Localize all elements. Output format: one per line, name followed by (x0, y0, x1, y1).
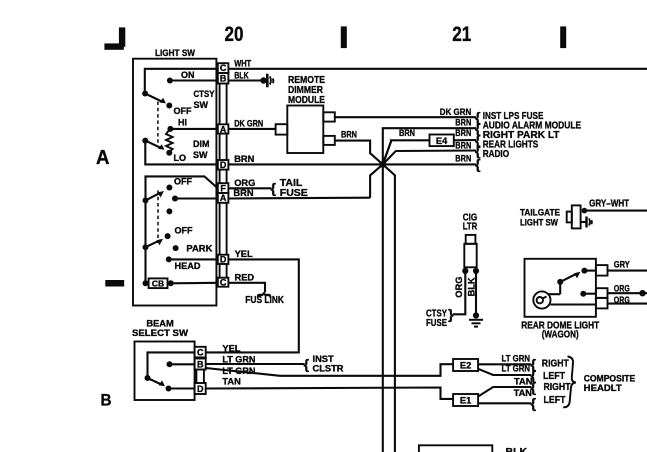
svg-text:LIGHT SW: LIGHT SW (155, 48, 195, 58)
svg-text:RED: RED (235, 273, 255, 283)
svg-text:LT GRN: LT GRN (222, 355, 255, 365)
svg-text:GRY–WHT: GRY–WHT (589, 198, 629, 210)
svg-text:OFF: OFF (175, 226, 193, 236)
svg-text:21: 21 (452, 23, 471, 46)
svg-text:RIGHT: RIGHT (542, 358, 569, 370)
svg-text:GRY: GRY (614, 260, 631, 270)
svg-text:20: 20 (225, 23, 244, 46)
svg-text:BRN: BRN (455, 154, 471, 164)
svg-text:BRN: BRN (455, 117, 471, 127)
svg-text:ON: ON (181, 70, 195, 80)
svg-text:CB: CB (152, 279, 164, 289)
svg-text:E4: E4 (436, 136, 448, 146)
svg-text:HEAD: HEAD (175, 261, 201, 271)
svg-text:OFF: OFF (174, 177, 192, 187)
svg-text:DK GRN: DK GRN (440, 107, 472, 117)
svg-text:BRN: BRN (455, 128, 471, 138)
svg-text:C: C (220, 277, 227, 287)
svg-text:SW: SW (193, 150, 208, 160)
svg-text:YEL: YEL (235, 249, 253, 259)
svg-text:BLK: BLK (234, 71, 249, 81)
svg-text:LT GRN: LT GRN (502, 364, 531, 374)
svg-text:C: C (197, 347, 204, 357)
svg-text:OFF: OFF (174, 106, 192, 116)
svg-text:LO: LO (174, 153, 187, 163)
svg-text:E1: E1 (460, 396, 471, 406)
svg-text:A: A (220, 124, 227, 134)
svg-text:A: A (220, 193, 227, 203)
svg-text:BRN: BRN (234, 154, 254, 164)
svg-text:FUS LINK: FUS LINK (245, 294, 284, 306)
svg-text:D: D (220, 255, 227, 265)
svg-text:LT GRN: LT GRN (502, 353, 531, 363)
svg-text:RADIO: RADIO (483, 148, 509, 160)
svg-text:TAN: TAN (514, 388, 533, 398)
svg-text:DK GRN: DK GRN (234, 119, 263, 129)
svg-text:{: { (271, 180, 277, 196)
svg-text:FUSE: FUSE (280, 187, 308, 199)
svg-text:{: { (475, 156, 481, 172)
svg-text:B: B (220, 74, 227, 84)
svg-text:BLK: BLK (466, 277, 476, 296)
svg-text:LEFT: LEFT (544, 394, 566, 406)
svg-text:WHT: WHT (234, 58, 251, 68)
svg-text:BRN: BRN (341, 129, 357, 139)
svg-text:B: B (101, 391, 112, 410)
svg-text:E2: E2 (460, 361, 471, 371)
svg-text:D: D (197, 384, 204, 394)
svg-text:TAN: TAN (514, 377, 533, 387)
svg-text:INST: INST (313, 354, 334, 364)
svg-text:}: } (448, 306, 454, 322)
svg-text:ORG: ORG (614, 295, 630, 305)
svg-text:CTSY: CTSY (194, 89, 215, 99)
svg-text:HEADLT: HEADLT (584, 383, 622, 393)
svg-text:CLSTR: CLSTR (313, 364, 344, 374)
svg-text:HI: HI (178, 118, 187, 128)
svg-text:LTR: LTR (463, 221, 478, 233)
svg-text:SELECT SW: SELECT SW (132, 328, 188, 338)
svg-text:TAILGATE: TAILGATE (520, 208, 560, 218)
svg-text:FUSE: FUSE (426, 317, 447, 329)
svg-text:(WAGON): (WAGON) (542, 329, 579, 341)
svg-text:F: F (220, 183, 226, 193)
svg-text:ORG: ORG (454, 277, 464, 298)
svg-text:BRN: BRN (455, 140, 471, 150)
svg-text:RIGHT: RIGHT (544, 381, 571, 393)
svg-text:{: { (304, 356, 310, 372)
svg-text:LT GRN: LT GRN (222, 366, 255, 376)
svg-text:D: D (220, 160, 227, 170)
svg-text:PARK: PARK (186, 244, 213, 254)
svg-text:A: A (96, 147, 110, 169)
svg-text:BRN: BRN (399, 128, 415, 138)
svg-text:TAN: TAN (222, 377, 241, 387)
svg-text:C: C (220, 63, 227, 73)
svg-text:MODULE: MODULE (288, 94, 325, 106)
svg-text:ORG: ORG (234, 178, 255, 188)
svg-text:YEL: YEL (222, 344, 240, 354)
svg-text:BRN: BRN (233, 188, 253, 198)
svg-text:BLK: BLK (506, 446, 528, 452)
svg-text:LIGHT SW: LIGHT SW (520, 217, 558, 227)
svg-text:B: B (197, 360, 204, 370)
svg-text:SW: SW (194, 100, 209, 110)
svg-text:ORG: ORG (614, 283, 630, 293)
svg-text:DIM: DIM (193, 139, 210, 149)
